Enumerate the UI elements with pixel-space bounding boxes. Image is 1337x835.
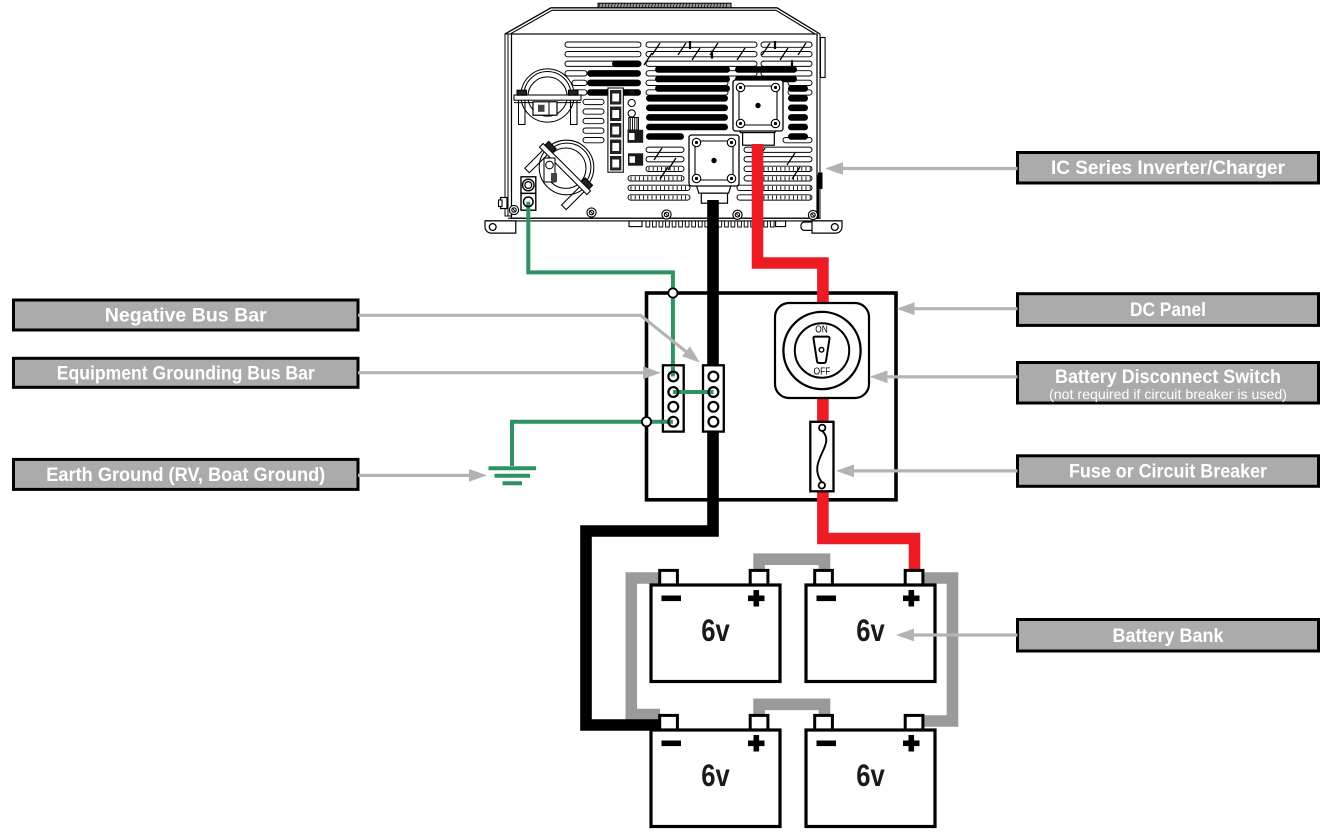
leader to earth ground xyxy=(358,474,473,477)
leader to inverter xyxy=(840,167,1018,170)
ground terminal block (green wire origin) xyxy=(521,177,536,210)
label: DC Panel xyxy=(1018,294,1319,326)
cable clamp (lower, rotated) xyxy=(522,125,610,213)
leader to grounding bus bar xyxy=(358,371,647,374)
inverter/charger unit U1 (rear view) xyxy=(499,3,826,219)
leader to DC panel xyxy=(910,307,1018,310)
battery B2 6v xyxy=(806,570,935,681)
leader to negative bus bar xyxy=(358,315,694,358)
svg-text:6v: 6v xyxy=(856,612,885,648)
green wire into bus bar holes xyxy=(662,366,713,422)
svg-text:6v: 6v xyxy=(701,612,730,648)
junction node: green wire at panel left xyxy=(642,417,651,426)
DC panel enclosure xyxy=(647,293,897,500)
label: Equipment Grounding Bus Bar xyxy=(14,358,359,387)
wire: green bus-bar jumper xyxy=(673,390,714,394)
leader to switch xyxy=(883,375,1018,378)
leader to battery bank xyxy=(909,633,1018,636)
svg-text:(not required if circuit break: (not required if circuit breaker is used… xyxy=(1049,386,1287,402)
wire: green to earth ground xyxy=(512,422,673,466)
wire: battery parallel jumper gray (right, pos) xyxy=(923,578,953,721)
wire: battery series jumper gray (bottom) xyxy=(759,704,824,716)
svg-text:6v: 6v xyxy=(701,757,730,793)
wire: negative (black) inverter to battery bank xyxy=(586,200,713,725)
label: Earth Ground (RV, Boat Ground) xyxy=(14,459,359,489)
svg-text:OFF: OFF xyxy=(814,367,831,378)
battery disconnect switch SW1 xyxy=(775,303,869,398)
label: Battery Disconnect Switch xyxy=(1018,363,1319,404)
svg-text:IC Series Inverter/Charger: IC Series Inverter/Charger xyxy=(1051,158,1286,179)
wire: green inside panel to negative bus bar xyxy=(671,293,675,377)
svg-text:Earth Ground (RV, Boat Ground): Earth Ground (RV, Boat Ground) xyxy=(46,465,325,486)
DC connector A (red/positive cable) xyxy=(737,123,778,145)
battery B3 6v xyxy=(651,715,780,826)
svg-text:6v: 6v xyxy=(856,757,885,793)
negative bus bar xyxy=(663,365,684,431)
vent slots xyxy=(565,41,812,200)
leader to fuse xyxy=(849,469,1018,472)
comm/remote connector column xyxy=(608,88,643,172)
wire: positive (red) fuse to battery bank xyxy=(823,489,915,572)
label: IC Series Inverter/Charger xyxy=(1018,153,1319,184)
wire: positive (red) switch to fuse xyxy=(817,396,829,424)
battery B4 6v xyxy=(806,715,935,826)
svg-text:Fuse or Circuit Breaker: Fuse or Circuit Breaker xyxy=(1069,462,1268,483)
equipment grounding bus bar xyxy=(703,365,724,431)
battery B1 6v xyxy=(651,570,780,681)
inverter bottom rail and mounting feet xyxy=(485,205,842,233)
fuse or circuit breaker F1 xyxy=(810,422,833,492)
wire: battery series jumper gray (top) xyxy=(759,559,824,571)
label: Battery Bank xyxy=(1018,620,1319,652)
ground terminal bottom ring (over green wire) xyxy=(524,197,534,207)
junction node: green wire at panel top xyxy=(668,288,677,297)
svg-text:Equipment Grounding Bus Bar: Equipment Grounding Bus Bar xyxy=(57,363,316,384)
wire: battery parallel jumper gray (left, neg) xyxy=(631,578,662,715)
earth ground symbol xyxy=(489,468,537,483)
svg-text:Battery Bank: Battery Bank xyxy=(1113,626,1224,647)
svg-text:ON: ON xyxy=(815,325,828,336)
svg-text:Negative Bus Bar: Negative Bus Bar xyxy=(105,306,268,327)
label: Negative Bus Bar xyxy=(14,300,359,330)
DC connector B (black/negative cable) xyxy=(696,184,732,204)
svg-text:Battery Disconnect Switch: Battery Disconnect Switch xyxy=(1055,367,1281,388)
cable clamp (top-left) xyxy=(514,69,581,125)
wire: positive (red) inverter to switch xyxy=(758,144,823,306)
svg-text:DC Panel: DC Panel xyxy=(1130,300,1206,321)
wire: equipment ground (green) from inverter to DC panel xyxy=(528,202,673,295)
label: Fuse or Circuit Breaker xyxy=(1018,456,1319,487)
